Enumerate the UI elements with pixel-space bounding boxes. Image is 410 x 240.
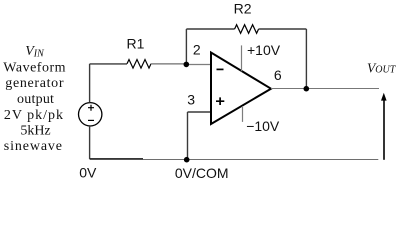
svg-text:R1: R1 xyxy=(127,36,145,52)
ground rail right segment xyxy=(143,159,378,161)
svg-text:sinewave: sinewave xyxy=(4,139,62,154)
svg-text:generator: generator xyxy=(5,76,64,91)
wire source top to R1 xyxy=(90,64,127,103)
source description text xyxy=(3,60,65,154)
output wire pin 6 to right xyxy=(271,88,379,90)
wire R2 to output node xyxy=(259,29,307,89)
positive supply pin tick xyxy=(241,45,243,71)
svg-text:R2: R2 xyxy=(234,0,252,16)
wire R1 to node A xyxy=(151,63,186,65)
svg-text:0V/COM: 0V/COM xyxy=(175,165,229,181)
wire source bottom to rail xyxy=(89,126,91,159)
svg-text:+10V: +10V xyxy=(247,42,281,58)
wire feedback up from node A xyxy=(186,29,234,65)
junction node A dot xyxy=(184,62,190,68)
junction ground rail dot xyxy=(184,157,190,163)
voltage source V1 circle xyxy=(79,103,102,126)
svg-text:6: 6 xyxy=(274,67,282,83)
svg-text:3: 3 xyxy=(187,92,195,108)
wire pin 3 to ground rail xyxy=(188,112,211,160)
op-amp U1 xyxy=(211,53,271,125)
resistor R2 xyxy=(235,25,259,34)
resistor R1 xyxy=(127,60,151,69)
svg-text:−10V: −10V xyxy=(246,118,280,134)
svg-text:2V pk/pk: 2V pk/pk xyxy=(4,108,63,123)
svg-text:0V: 0V xyxy=(79,165,97,181)
svg-text:Waveform: Waveform xyxy=(3,60,65,75)
negative supply pin tick xyxy=(242,106,244,122)
svg-text:5kHz: 5kHz xyxy=(20,124,50,139)
ground rail left segment xyxy=(90,158,143,160)
svg-text:output: output xyxy=(17,92,54,107)
svg-text:2: 2 xyxy=(193,41,201,57)
wire node A to pin 2 xyxy=(186,64,210,66)
Vout measurement arrow xyxy=(381,93,387,160)
output node dot xyxy=(304,86,310,92)
